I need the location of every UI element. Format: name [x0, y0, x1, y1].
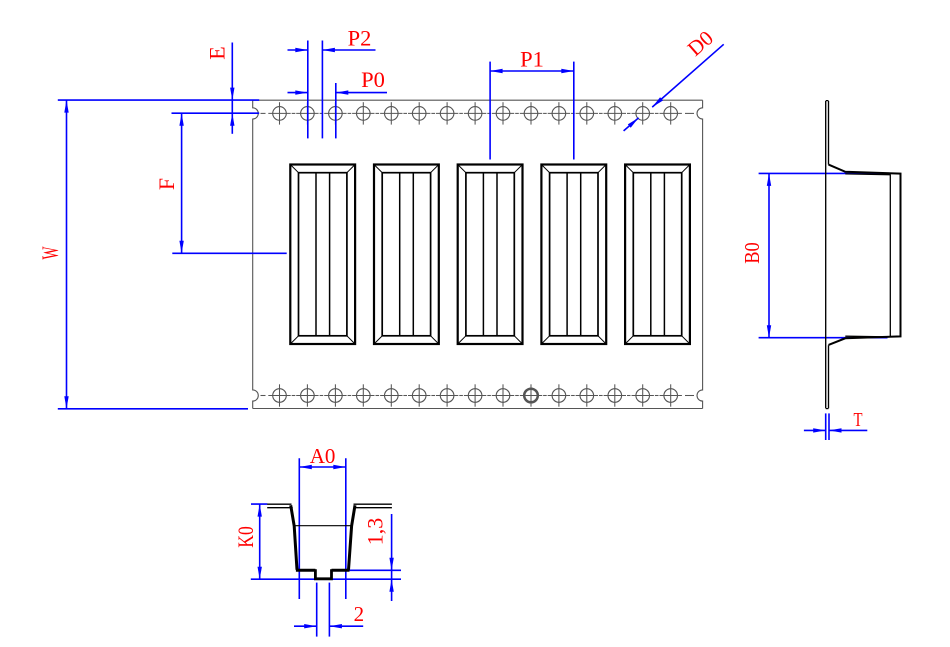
pocket 3 — [458, 165, 523, 345]
sprocket holes top row — [261, 102, 695, 124]
svg-text:P1: P1 — [520, 47, 544, 72]
sprocket holes bottom row — [261, 384, 695, 406]
side view pocket — [829, 165, 901, 345]
dimension P1 — [490, 47, 574, 160]
dimension P0 — [288, 67, 388, 138]
pocket 2 — [374, 165, 439, 345]
pocket 5 — [625, 165, 690, 345]
dimension F — [154, 113, 287, 253]
pocket 4 — [541, 165, 606, 345]
svg-text:K0: K0 — [233, 526, 258, 548]
dimension A0 — [299, 444, 346, 599]
svg-text:F: F — [154, 178, 179, 190]
svg-text:W: W — [38, 246, 63, 259]
side view tape — [826, 101, 829, 409]
dimension 2 — [294, 583, 364, 637]
carrier tape outline — [253, 100, 703, 408]
section view pocket — [291, 505, 355, 579]
pocket 1 — [290, 165, 355, 345]
dimension 1,3 — [349, 514, 402, 601]
svg-text:A0: A0 — [310, 444, 336, 468]
dimension K0 — [233, 504, 401, 579]
svg-text:1,3: 1,3 — [363, 518, 388, 546]
section view tape — [267, 504, 392, 508]
dimension E — [205, 43, 235, 134]
svg-text:T: T — [854, 409, 863, 431]
dimension D0 leader — [624, 26, 724, 131]
svg-text:E: E — [205, 46, 230, 59]
svg-text:2: 2 — [354, 602, 365, 626]
svg-text:P0: P0 — [361, 67, 385, 92]
dimension B0 — [740, 173, 888, 337]
svg-text:B0: B0 — [740, 242, 764, 264]
dimension T — [804, 409, 867, 440]
dimension P2 — [288, 26, 376, 139]
dimension W — [38, 100, 259, 409]
svg-text:D0: D0 — [683, 26, 718, 61]
svg-text:P2: P2 — [348, 26, 372, 51]
